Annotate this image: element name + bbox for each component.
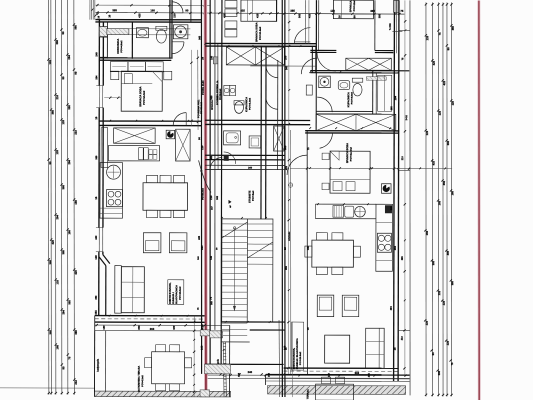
svg-text:365: 365 xyxy=(285,265,288,270)
svg-text:DNEVNI BORAVAK,: DNEVNI BORAVAK, xyxy=(293,347,296,369)
svg-text:POV=5.2m2: POV=5.2m2 xyxy=(250,97,252,110)
svg-text:160: 160 xyxy=(173,325,176,330)
svg-text:120: 120 xyxy=(451,100,455,105)
svg-text:TERASA: TERASA xyxy=(307,389,310,399)
svg-text:BLAGOVAONICA: BLAGOVAONICA xyxy=(175,285,178,304)
svg-text:PD=58.6m2: PD=58.6m2 xyxy=(203,187,205,200)
svg-text:POVRSINA PRIZEMLJA: POVRSINA PRIZEMLJA xyxy=(216,80,219,105)
svg-text:240: 240 xyxy=(285,65,288,70)
svg-text:90: 90 xyxy=(61,31,65,35)
svg-text:240: 240 xyxy=(95,235,98,240)
svg-text:DNEVNI BORAVAK,: DNEVNI BORAVAK, xyxy=(169,282,172,304)
svg-text:365: 365 xyxy=(297,13,301,18)
svg-text:SPAVACA SOBA: SPAVACA SOBA xyxy=(345,143,349,163)
svg-text:284: 284 xyxy=(390,306,393,311)
svg-text:365: 365 xyxy=(393,245,397,250)
svg-text:160: 160 xyxy=(55,345,59,350)
svg-text:160: 160 xyxy=(74,200,78,205)
svg-text:160: 160 xyxy=(103,325,106,330)
svg-text:90: 90 xyxy=(61,76,65,80)
svg-text:365: 365 xyxy=(442,180,446,185)
svg-text:365: 365 xyxy=(209,95,213,100)
svg-text:425: 425 xyxy=(51,240,55,245)
svg-text:425: 425 xyxy=(137,13,141,18)
svg-text:POV=12m2: POV=12m2 xyxy=(354,0,356,11)
svg-text:KUHINJA I BLAGOVAONICA: KUHINJA I BLAGOVAONICA xyxy=(296,338,299,369)
svg-text:363: 363 xyxy=(216,195,219,200)
svg-text:363: 363 xyxy=(138,325,141,330)
svg-text:160: 160 xyxy=(210,55,213,60)
svg-text:POV=12.6m2: POV=12.6m2 xyxy=(351,146,353,161)
svg-text:90: 90 xyxy=(61,366,65,370)
svg-text:120: 120 xyxy=(210,255,213,260)
svg-text:120: 120 xyxy=(55,280,59,285)
svg-text:90: 90 xyxy=(74,71,78,75)
svg-text:240: 240 xyxy=(248,167,253,170)
svg-text:385: 385 xyxy=(283,145,287,150)
svg-text:385: 385 xyxy=(210,155,213,160)
svg-text:160: 160 xyxy=(150,8,155,12)
svg-text:363: 363 xyxy=(94,310,98,315)
svg-text:120: 120 xyxy=(446,340,450,345)
svg-text:365: 365 xyxy=(48,330,52,335)
svg-text:284: 284 xyxy=(67,55,71,60)
svg-text:SPAVACA SOBA: SPAVACA SOBA xyxy=(349,0,352,12)
svg-text:120: 120 xyxy=(425,35,429,40)
svg-text:425: 425 xyxy=(198,235,201,240)
svg-text:284: 284 xyxy=(61,310,65,315)
svg-text:425: 425 xyxy=(255,13,259,18)
svg-text:365: 365 xyxy=(268,372,271,377)
svg-text:75: 75 xyxy=(67,356,71,360)
svg-text:POV=4.8m2: POV=4.8m2 xyxy=(351,91,354,104)
svg-text:160: 160 xyxy=(283,55,287,60)
svg-text:284: 284 xyxy=(55,215,59,220)
svg-text:POV=11.8m2: POV=11.8m2 xyxy=(260,26,262,40)
svg-text:SPAVACA SOBA: SPAVACA SOBA xyxy=(255,22,258,42)
svg-text:365: 365 xyxy=(67,105,71,110)
svg-text:210: 210 xyxy=(209,195,213,200)
svg-text:2+10: 2+10 xyxy=(406,114,408,120)
svg-text:385: 385 xyxy=(74,25,78,30)
svg-text:POV=12m2: POV=12m2 xyxy=(142,374,144,386)
svg-text:PD=58.6m2: PD=58.6m2 xyxy=(201,101,203,114)
svg-text:120: 120 xyxy=(438,110,442,115)
svg-text:KUPAONICA: KUPAONICA xyxy=(117,39,120,54)
svg-text:75: 75 xyxy=(450,362,454,366)
svg-text:POV=14.2m2: POV=14.2m2 xyxy=(143,90,146,105)
svg-text:365: 365 xyxy=(451,25,455,30)
svg-text:SPAVACA: SPAVACA xyxy=(211,100,214,110)
svg-text:425: 425 xyxy=(431,160,435,165)
svg-text:365: 365 xyxy=(67,300,71,305)
svg-text:365: 365 xyxy=(61,250,65,255)
svg-text:210: 210 xyxy=(172,13,176,18)
svg-text:365: 365 xyxy=(446,140,450,145)
svg-text:365: 365 xyxy=(112,8,117,12)
svg-text:POV=4.6m2: POV=4.6m2 xyxy=(120,40,123,53)
svg-text:KUHINJA I: KUHINJA I xyxy=(172,292,175,304)
svg-text:385: 385 xyxy=(377,13,381,18)
svg-text:284: 284 xyxy=(67,160,71,165)
svg-text:POV=26.5m2: POV=26.5m2 xyxy=(300,351,302,365)
svg-text:KUPAONICA: KUPAONICA xyxy=(347,92,350,107)
svg-text:120: 120 xyxy=(55,150,59,155)
svg-text:90: 90 xyxy=(431,352,435,356)
svg-text:240: 240 xyxy=(390,206,393,211)
svg-text:120: 120 xyxy=(330,9,335,13)
svg-text:365: 365 xyxy=(51,110,55,115)
svg-text:210: 210 xyxy=(74,130,78,135)
svg-text:210: 210 xyxy=(328,372,331,377)
svg-text:POV=5m2: POV=5m2 xyxy=(253,190,255,201)
svg-text:160: 160 xyxy=(425,230,429,235)
svg-text:425: 425 xyxy=(238,372,241,377)
svg-text:425: 425 xyxy=(74,270,78,275)
svg-text:160: 160 xyxy=(437,200,441,205)
svg-text:385: 385 xyxy=(431,260,435,265)
svg-text:POVRSINA PRIZ.: POVRSINA PRIZ. xyxy=(197,99,200,118)
svg-text:STUBISTE: STUBISTE xyxy=(248,190,251,203)
svg-text:36.60: 36.60 xyxy=(202,324,204,330)
svg-text:210: 210 xyxy=(74,380,78,385)
svg-text:284: 284 xyxy=(200,245,204,250)
svg-text:160: 160 xyxy=(307,245,310,250)
svg-text:SPAVACA SOBA: SPAVACA SOBA xyxy=(138,86,142,106)
svg-text:160: 160 xyxy=(450,190,454,195)
svg-text:365: 365 xyxy=(216,95,219,100)
svg-text:KUPAONICA: KUPAONICA xyxy=(245,97,248,112)
svg-text:284: 284 xyxy=(95,75,98,80)
svg-text:75: 75 xyxy=(438,32,442,36)
svg-text:POVRS. 36.60: POVRS. 36.60 xyxy=(203,80,205,95)
svg-text:240: 240 xyxy=(94,52,98,57)
svg-text:240: 240 xyxy=(248,370,253,374)
svg-text:425: 425 xyxy=(442,80,446,85)
svg-text:385: 385 xyxy=(290,9,295,13)
svg-text:210: 210 xyxy=(55,95,59,100)
svg-text:90: 90 xyxy=(185,8,189,12)
svg-text:NATKRIVENA TERASA: NATKRIVENA TERASA xyxy=(138,366,141,392)
svg-text:120: 120 xyxy=(48,60,52,65)
svg-text:385: 385 xyxy=(446,250,450,255)
svg-text:HODNIK: HODNIK xyxy=(288,231,291,241)
svg-text:284: 284 xyxy=(368,373,371,378)
svg-text:7+7/20: 7+7/20 xyxy=(390,22,392,30)
svg-text:120: 120 xyxy=(61,120,65,125)
svg-text:120: 120 xyxy=(94,255,98,260)
svg-text:120: 120 xyxy=(425,130,429,135)
svg-text:385: 385 xyxy=(95,155,98,160)
svg-text:385: 385 xyxy=(48,260,52,265)
svg-text:284: 284 xyxy=(393,95,397,100)
svg-text:363: 363 xyxy=(150,327,155,331)
svg-text:385: 385 xyxy=(437,370,441,375)
svg-text:90: 90 xyxy=(446,47,450,51)
svg-text:120: 120 xyxy=(442,300,446,305)
svg-text:365: 365 xyxy=(390,106,393,111)
svg-text:240: 240 xyxy=(200,345,204,350)
svg-text:385: 385 xyxy=(401,256,404,261)
svg-text:425: 425 xyxy=(307,13,311,18)
svg-text:120: 120 xyxy=(437,290,441,295)
svg-text:425: 425 xyxy=(222,13,226,18)
svg-text:kat/pergola: kat/pergola xyxy=(97,358,100,371)
svg-text:160: 160 xyxy=(67,230,71,235)
svg-text:75: 75 xyxy=(400,9,404,13)
svg-text:210: 210 xyxy=(401,156,404,161)
svg-text:90: 90 xyxy=(48,161,52,165)
svg-text:365: 365 xyxy=(55,40,59,45)
svg-text:385: 385 xyxy=(450,280,454,285)
svg-text:425: 425 xyxy=(285,165,288,170)
svg-text:120: 120 xyxy=(425,320,429,325)
svg-text:210: 210 xyxy=(401,336,404,341)
svg-text:POV=26.5m2: POV=26.5m2 xyxy=(180,286,182,300)
svg-text:365: 365 xyxy=(61,185,65,190)
svg-text:210: 210 xyxy=(200,145,204,150)
svg-text:365: 365 xyxy=(198,35,201,40)
svg-text:425: 425 xyxy=(432,60,436,65)
svg-text:385: 385 xyxy=(74,330,78,335)
svg-text:363: 363 xyxy=(95,295,98,300)
